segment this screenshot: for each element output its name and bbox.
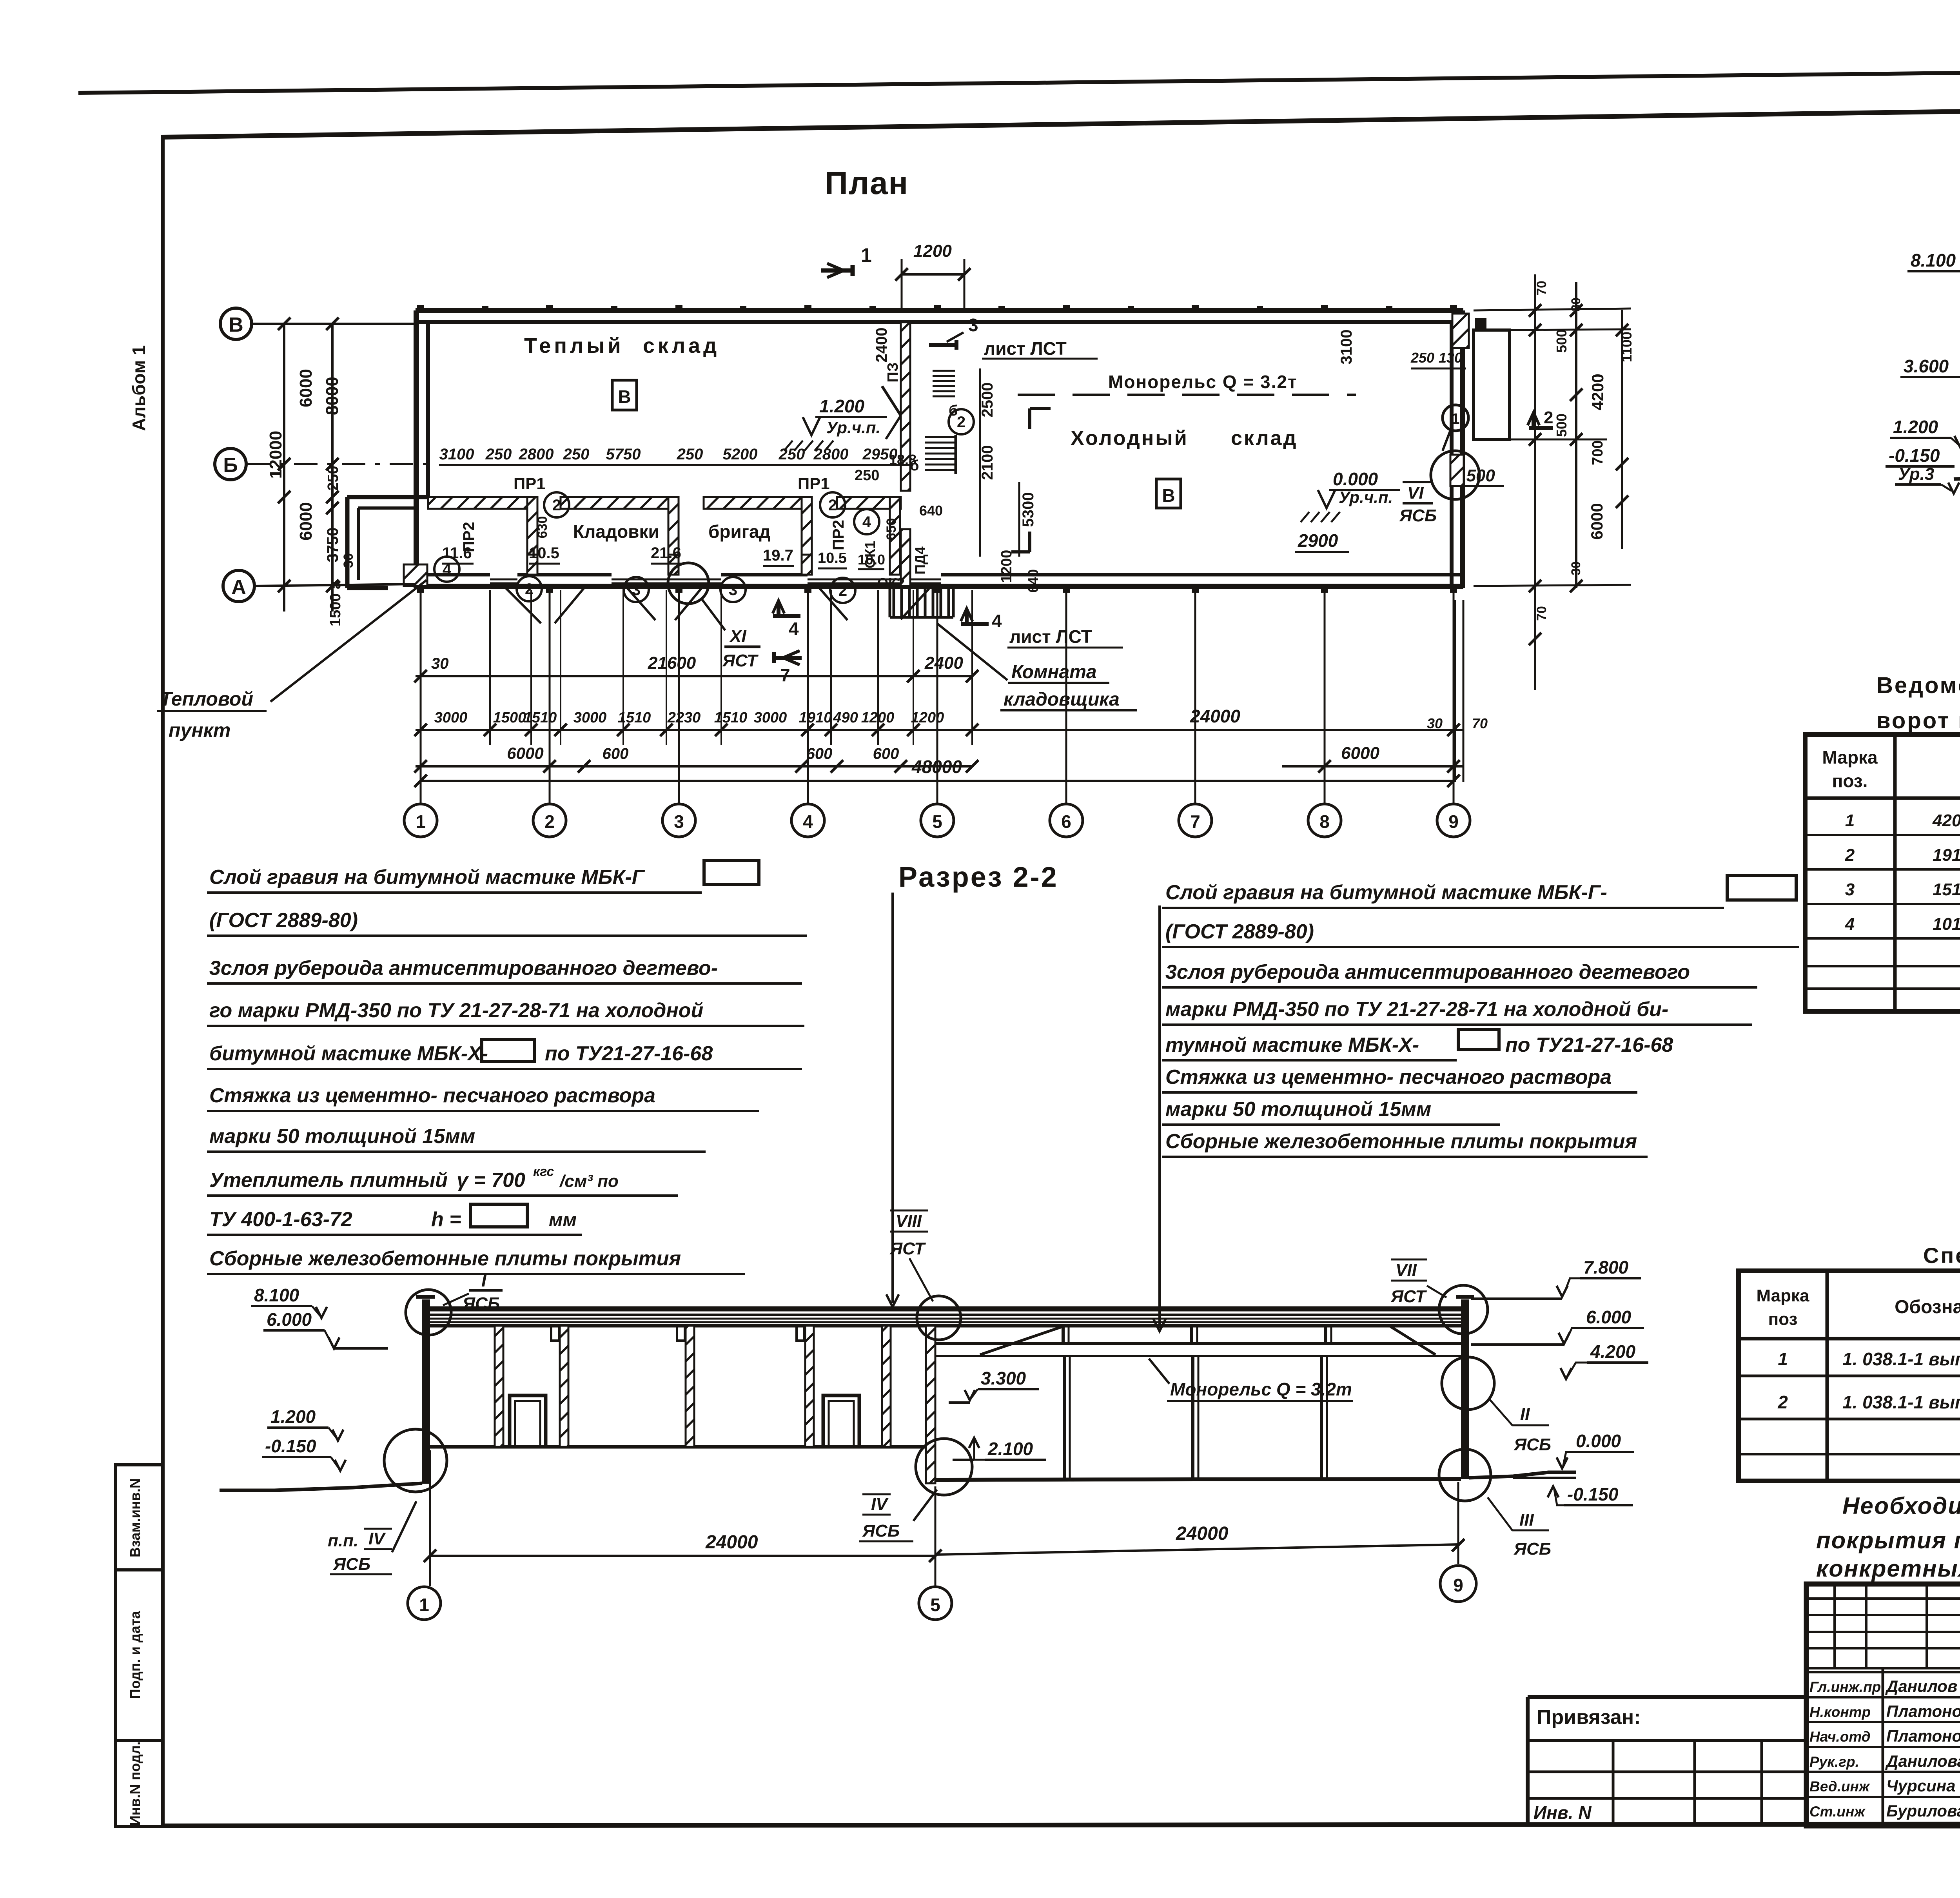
partition wall on axis B (hatched) — [428, 497, 527, 509]
svg-text:марки 50 толщиной 15мм: марки 50 толщиной 15мм — [209, 1125, 475, 1148]
section 2-2 mid wall (axis 5) — [926, 1326, 935, 1483]
svg-text:0.000: 0.000 — [1576, 1431, 1621, 1451]
svg-text:го марки РМД-350 по ТУ 21-27-: го марки РМД-350 по ТУ 21-27-28-71 на хо… — [209, 999, 703, 1022]
section 2-2 axis circles — [408, 1587, 441, 1620]
svg-text:ЯСБ: ЯСБ — [1399, 506, 1437, 525]
title block signature zone — [1806, 1597, 1960, 1600]
svg-text:поз.: поз. — [1832, 771, 1868, 791]
plan building top wall (axis B) — [416, 308, 1463, 313]
title block main frame — [1806, 1584, 1960, 1826]
svg-text:70: 70 — [1472, 715, 1488, 731]
svg-text:70: 70 — [1534, 281, 1549, 296]
svg-text:Необходимость устройства пар: Необходимость устройства пароизоляции по… — [1842, 1493, 1960, 1519]
grid circles 1-9 — [404, 804, 437, 837]
entrance steps bottom — [893, 588, 895, 617]
svg-text:Монорельс Q = 3.2т: Монорельс Q = 3.2т — [1170, 1379, 1352, 1399]
circled 1 with leader — [1443, 405, 1468, 431]
svg-text:3: 3 — [968, 315, 978, 335]
svg-text:тумной мастике МБК-Х-: тумной мастике МБК-Х- — [1165, 1034, 1419, 1056]
plan building right wall — [1460, 310, 1465, 588]
stair wall — [901, 322, 910, 491]
svg-text:1: 1 — [861, 244, 872, 266]
svg-text:1510 × 2370: 1510 × 2370 — [1933, 880, 1960, 899]
svg-text:1510: 1510 — [524, 709, 557, 726]
svg-text:640: 640 — [1025, 569, 1041, 593]
svg-text:250: 250 — [855, 467, 879, 484]
svg-text:24000: 24000 — [705, 1532, 758, 1553]
short posts above beam — [1062, 1325, 1065, 1344]
svg-text:1: 1 — [1845, 811, 1855, 830]
svg-text:6.000: 6.000 — [1586, 1307, 1632, 1327]
svg-text:24000: 24000 — [1190, 706, 1240, 726]
partition stubs bottom — [527, 555, 537, 575]
svg-text:24000: 24000 — [1176, 1523, 1229, 1544]
svg-text:Обозначение: Обозначение — [1895, 1297, 1960, 1317]
plan building bottom wall (axis A) — [416, 584, 972, 589]
left eave detail circle — [406, 1290, 451, 1335]
left block right bracket+arrow — [891, 893, 894, 1303]
svg-text:(ГОСТ 2889-80): (ГОСТ 2889-80) — [209, 909, 358, 932]
svg-text:Данилов: Данилов — [1885, 1677, 1957, 1695]
svg-text:8.100: 8.100 — [1911, 250, 1956, 270]
partitions — [495, 1326, 503, 1447]
svg-text:Ур.3: Ур.3 — [1898, 465, 1934, 484]
svg-text:Марка: Марка — [1822, 747, 1878, 768]
svg-text:1. 038.1-1 вып. 1: 1. 038.1-1 вып. 1 — [1842, 1349, 1960, 1369]
svg-text:2: 2 — [1544, 408, 1553, 427]
svg-text:5200: 5200 — [723, 446, 758, 463]
svg-text:битумной мастике МБК-Х-: битумной мастике МБК-Х- — [209, 1042, 488, 1065]
witness lines down from building — [420, 590, 422, 804]
monorail dashed line — [1018, 394, 1356, 396]
svg-text:3100: 3100 — [439, 446, 474, 463]
svg-text:3: 3 — [674, 811, 684, 832]
svg-text:5: 5 — [932, 811, 942, 832]
svg-text:3000: 3000 — [434, 709, 468, 726]
svg-text:500: 500 — [1553, 329, 1570, 353]
svg-text:/см³ по: /см³ по — [559, 1172, 619, 1191]
svg-text:1200: 1200 — [911, 709, 944, 726]
svg-text:Нач.отд: Нач.отд — [1809, 1729, 1871, 1745]
section mark 3 (top, list LST) — [929, 340, 956, 350]
svg-text:600: 600 — [873, 745, 899, 762]
frame left edge — [161, 136, 165, 1827]
revision grid — [1528, 1739, 1806, 1742]
svg-text:250: 250 — [1410, 350, 1434, 366]
svg-text:30: 30 — [341, 553, 356, 568]
svg-text:ПР1: ПР1 — [798, 474, 830, 493]
svg-text:ПР1: ПР1 — [514, 474, 546, 493]
axis circles B,Б,А — [220, 308, 252, 339]
left ground — [220, 1483, 422, 1490]
svg-text:250: 250 — [485, 446, 512, 463]
svg-text:9: 9 — [1448, 811, 1459, 832]
svg-text:8: 8 — [1319, 811, 1330, 832]
svg-text:ПР2: ПР2 — [830, 520, 847, 550]
svg-text:Разрез 2-2: Разрез 2-2 — [898, 862, 1058, 893]
svg-text:6.000: 6.000 — [267, 1309, 312, 1330]
cut mark 2 right — [1529, 416, 1553, 428]
svg-text:марки 50 толщиной 15мм: марки 50 толщиной 15мм — [1165, 1098, 1431, 1121]
svg-text:4: 4 — [789, 619, 799, 639]
svg-text:Платонова: Платонова — [1886, 1727, 1960, 1745]
svg-text:ЯСТ: ЯСТ — [1390, 1287, 1427, 1306]
svg-text:IV: IV — [871, 1495, 889, 1514]
svg-text:10.5: 10.5 — [818, 550, 847, 566]
svg-text:ЯСБ: ЯСБ — [862, 1521, 900, 1541]
svg-text:600: 600 — [806, 745, 833, 762]
IV/YaSB mark near axis 5 — [916, 1439, 972, 1495]
svg-text:2: 2 — [828, 497, 837, 514]
svg-text:250: 250 — [325, 466, 341, 490]
II/YaSB right — [1442, 1357, 1494, 1410]
right ground — [1469, 1472, 1576, 1478]
left base detail circle — [384, 1429, 447, 1492]
svg-text:4.200: 4.200 — [1590, 1341, 1636, 1362]
svg-text:4: 4 — [862, 514, 871, 531]
svg-text:8000: 8000 — [323, 377, 342, 415]
section 2-2 roof slab band — [422, 1306, 1469, 1312]
svg-text:11.6: 11.6 — [442, 544, 472, 562]
svg-text:2400: 2400 — [873, 328, 890, 363]
svg-text:I: I — [481, 1270, 487, 1290]
svg-text:5: 5 — [930, 1595, 940, 1615]
svg-text:-0.150: -0.150 — [1567, 1484, 1619, 1504]
svg-text:Марка: Марка — [1756, 1286, 1809, 1305]
sheet top band line 2 / frame top — [161, 102, 1960, 137]
svg-text:650: 650 — [884, 518, 899, 541]
right half monorail beam — [935, 1342, 1461, 1345]
svg-text:ЯСБ: ЯСБ — [1514, 1435, 1551, 1454]
svg-text:3000: 3000 — [573, 709, 607, 726]
svg-text:А: А — [231, 576, 246, 599]
svg-text:ЯСТ: ЯСТ — [889, 1239, 926, 1258]
svg-text:1.200: 1.200 — [1893, 417, 1938, 437]
svg-text:2400: 2400 — [924, 653, 963, 673]
svg-text:1: 1 — [1778, 1349, 1788, 1369]
svg-text:2800: 2800 — [519, 446, 554, 463]
svg-text:6000: 6000 — [296, 502, 316, 541]
svg-text:покрытия проверяется при пр: покрытия проверяется при привязке в зави… — [1816, 1527, 1960, 1553]
svg-text:1: 1 — [416, 811, 426, 832]
svg-text:пункт: пункт — [169, 719, 230, 741]
svg-text:3слоя рубероида антисептиров: 3слоя рубероида антисептированного дегте… — [1165, 961, 1690, 983]
svg-text:1: 1 — [1451, 411, 1459, 427]
table: vedomost proemov — [1805, 735, 1960, 1011]
svg-text:Н.контр: Н.контр — [1809, 1704, 1871, 1720]
svg-text:3слоя рубероида антисептирован: 3слоя рубероида антисептированного дегте… — [209, 957, 718, 980]
svg-text:10.5: 10.5 — [529, 544, 559, 562]
corner detail circle — [1431, 451, 1479, 499]
svg-text:4: 4 — [1845, 915, 1855, 934]
svg-text:-0.150: -0.150 — [265, 1436, 316, 1456]
svg-text:1510: 1510 — [714, 709, 748, 726]
svg-text:1100: 1100 — [1619, 332, 1635, 362]
svg-text:3.600: 3.600 — [1904, 356, 1949, 376]
right block left bracket+arrow — [1158, 905, 1161, 1328]
svg-text:4: 4 — [443, 561, 452, 578]
svg-text:Рук.гр.: Рук.гр. — [1809, 1754, 1859, 1770]
svg-text:поз: поз — [1768, 1310, 1798, 1329]
svg-text:лист ЛСТ: лист ЛСТ — [1009, 626, 1092, 647]
svg-text:-0.150: -0.150 — [1889, 445, 1940, 466]
axis B line across — [956, 323, 1463, 324]
svg-text:ОК1: ОК1 — [862, 541, 878, 568]
svg-text:ворот и дверей: ворот и дверей — [1877, 708, 1960, 733]
svg-text:Инв. N: Инв. N — [1534, 1802, 1592, 1823]
svg-text:1200: 1200 — [998, 550, 1015, 583]
svg-text:6000: 6000 — [296, 369, 316, 407]
svg-text:2900: 2900 — [1298, 530, 1338, 551]
svg-text:700: 700 — [1590, 440, 1606, 465]
spec table — [1739, 1271, 1960, 1481]
posts right half — [1063, 1356, 1066, 1479]
floor right half — [935, 1479, 1461, 1480]
svg-text:Чурсина: Чурсина — [1886, 1776, 1956, 1795]
svg-text:Ур.ч.п.: Ур.ч.п. — [1339, 488, 1393, 506]
svg-text:130: 130 — [1439, 350, 1462, 366]
svg-text:Слой гравия на битумной мастик: Слой гравия на битумной мастике МБК-Г — [209, 866, 645, 889]
svg-text:3: 3 — [1845, 880, 1855, 899]
svg-text:Кладовки: Кладовки — [573, 521, 659, 542]
svg-text:2100: 2100 — [979, 445, 996, 480]
svg-text:2: 2 — [1845, 846, 1855, 865]
svg-text:19.7: 19.7 — [763, 547, 793, 564]
privyazan box — [1528, 1695, 1806, 1699]
svg-text:4200 × 4200: 4200 × 4200 — [1932, 811, 1960, 830]
door swing arcs bottom wall — [506, 588, 541, 623]
svg-text:3750: 3750 — [324, 528, 341, 563]
svg-text:бригад: бригад — [708, 521, 771, 542]
svg-text:4200: 4200 — [1588, 374, 1607, 410]
svg-text:6000: 6000 — [1588, 503, 1606, 539]
svg-text:Привязан:: Привязан: — [1537, 1706, 1641, 1729]
interior dim row (3100 250 2800 ...) — [439, 464, 913, 466]
svg-text:Б: Б — [223, 454, 238, 477]
svg-text:1500 а: 1500 а — [327, 581, 344, 626]
svg-text:630: 630 — [535, 516, 550, 539]
svg-text:Стяжка из цементно- песчаног: Стяжка из цементно- песчаного раствора — [1165, 1066, 1612, 1089]
svg-text:h =: h = — [431, 1208, 461, 1231]
sheet top band line 1 — [78, 66, 1960, 93]
svg-text:2.100: 2.100 — [987, 1439, 1033, 1459]
svg-text:ТУ 400-1-63-72: ТУ 400-1-63-72 — [209, 1208, 352, 1231]
svg-text:Сборные железобетонные плиты: Сборные железобетонные плиты покрытия — [1165, 1130, 1637, 1153]
section 2-2 floor left half — [430, 1445, 935, 1449]
svg-text:Утеплитель плитный: Утеплитель плитный — [209, 1169, 448, 1192]
svg-text:В: В — [618, 386, 631, 407]
svg-text:5300: 5300 — [1020, 492, 1037, 527]
svg-text:21.6: 21.6 — [651, 544, 681, 562]
svg-text:30: 30 — [1569, 298, 1583, 312]
svg-text:18.8: 18.8 — [889, 452, 916, 468]
svg-text:1.200: 1.200 — [819, 396, 865, 416]
svg-text:конкретных климатических ус: конкретных климатических условий. — [1816, 1555, 1960, 1582]
svg-text:XI: XI — [729, 627, 746, 646]
svg-text:21600: 21600 — [648, 653, 696, 673]
svg-text:3: 3 — [729, 581, 737, 599]
svg-text:Ст.инж: Ст.инж — [1809, 1804, 1866, 1820]
svg-text:6: 6 — [1061, 811, 1071, 832]
svg-text:В: В — [229, 314, 243, 336]
svg-text:2: 2 — [838, 582, 847, 599]
svg-text:4: 4 — [992, 611, 1002, 631]
svg-text:Бурилова: Бурилова — [1886, 1802, 1960, 1820]
svg-text:VI: VI — [1407, 483, 1424, 503]
svg-text:Стяжка из цементно- песчаного: Стяжка из цементно- песчаного раствора — [209, 1084, 655, 1107]
svg-text:Тепловой: Тепловой — [160, 688, 253, 710]
plan building left wall — [414, 310, 419, 588]
right annex rectangle — [1474, 330, 1510, 439]
svg-text:Теплый: Теплый — [524, 334, 624, 357]
stair treads — [925, 436, 956, 438]
svg-text:640: 640 — [919, 503, 943, 519]
svg-text:кладовщика: кладовщика — [1004, 689, 1120, 710]
svg-text:2: 2 — [1777, 1392, 1788, 1412]
svg-text:II: II — [1520, 1404, 1530, 1424]
circled position numbers — [544, 492, 569, 517]
svg-text:ЯСБ: ЯСБ — [1514, 1539, 1551, 1559]
svg-text:6000: 6000 — [1341, 744, 1379, 763]
svg-text:Ведомость проемов: Ведомость проемов — [1877, 673, 1960, 698]
svg-text:Гл.инж.пр: Гл.инж.пр — [1809, 1679, 1881, 1695]
plan bottom dimension rows — [416, 675, 972, 677]
svg-text:1910 × 2370: 1910 × 2370 — [1933, 846, 1960, 865]
svg-text:Комната: Комната — [1011, 662, 1097, 682]
svg-text:п.п.: п.п. — [328, 1531, 358, 1550]
svg-text:кгс: кгс — [533, 1164, 554, 1179]
svg-text:Сборные железобетонные плиты: Сборные железобетонные плиты покрытия — [209, 1247, 681, 1270]
cut mark 1 top — [821, 265, 853, 276]
svg-text:VIII: VIII — [896, 1212, 922, 1231]
partition top clips — [551, 1326, 559, 1341]
svg-text:марки РМД-350 по ТУ 21-27-28-: марки РМД-350 по ТУ 21-27-28-71 на холод… — [1165, 998, 1668, 1021]
svg-text:8.100: 8.100 — [254, 1285, 299, 1305]
svg-text:по ТУ21-27-16-68: по ТУ21-27-16-68 — [1505, 1034, 1673, 1056]
cut mark bottom (4 up / 7 left) — [773, 604, 800, 616]
svg-text:Взам.инв.N: Взам.инв.N — [127, 1478, 143, 1557]
svg-text:250: 250 — [677, 446, 703, 463]
30/70 below bottom wall right — [1454, 600, 1456, 782]
svg-text:2: 2 — [525, 581, 534, 598]
svg-text:Ур.ч.п.: Ур.ч.п. — [826, 418, 880, 437]
svg-text:Вед.инж: Вед.инж — [1809, 1778, 1870, 1795]
svg-text:ЯСБ: ЯСБ — [462, 1294, 500, 1313]
svg-text:30: 30 — [1569, 561, 1583, 575]
svg-text:3100: 3100 — [1338, 330, 1355, 365]
svg-text:7: 7 — [1190, 811, 1200, 832]
svg-text:9: 9 — [1453, 1575, 1463, 1595]
svg-text:ПЗ: ПЗ — [885, 362, 901, 382]
door frames — [510, 1395, 546, 1447]
left attribute boxes — [116, 1465, 163, 1827]
stair treads upper flight — [933, 370, 955, 372]
left vertical dimension lines — [283, 324, 285, 611]
svg-text:Инв.N подл.: Инв.N подл. — [127, 1742, 143, 1826]
svg-text:IV: IV — [368, 1529, 386, 1548]
braces — [980, 1326, 1063, 1355]
section mark 4 (bottom, list LST) — [961, 611, 989, 624]
svg-text:1: 1 — [419, 1595, 429, 1615]
svg-text:250: 250 — [779, 446, 805, 463]
svg-text:Платонова: Платонова — [1886, 1702, 1960, 1720]
svg-text:VII: VII — [1396, 1261, 1417, 1280]
svg-text:500: 500 — [1553, 414, 1570, 437]
section 2-2 left wall — [422, 1299, 430, 1484]
svg-text:лист ЛСТ: лист ЛСТ — [984, 338, 1067, 359]
svg-text:План: План — [825, 165, 909, 201]
svg-text:250: 250 — [563, 446, 590, 463]
svg-text:70: 70 — [1534, 606, 1549, 621]
svg-text:ПД4: ПД4 — [912, 546, 928, 575]
column ticks on walls — [417, 305, 424, 311]
svg-text:ЯСБ: ЯСБ — [333, 1555, 370, 1574]
svg-text:2800: 2800 — [813, 446, 849, 463]
III/YaSB right — [1439, 1449, 1491, 1501]
svg-text:2: 2 — [957, 414, 965, 431]
section 2-2 span dims — [430, 1555, 935, 1557]
svg-text:Спецификация: Спецификация — [1923, 1243, 1960, 1268]
axis leader lines left — [252, 323, 416, 325]
svg-text:4: 4 — [803, 811, 813, 832]
frame bottom edge — [161, 1824, 1960, 1826]
svg-text:Монорельс Q = 3.2т: Монорельс Q = 3.2т — [1108, 372, 1298, 392]
vertical partitions — [527, 497, 537, 575]
svg-text:6000: 6000 — [507, 744, 543, 762]
section 2-2 right wall — [1461, 1299, 1469, 1479]
svg-text:3000: 3000 — [754, 709, 787, 726]
svg-text:1. 038.1-1 вып. 1: 1. 038.1-1 вып. 1 — [1842, 1392, 1960, 1412]
svg-text:Слой гравия на битумной мас: Слой гравия на битумной мастике МБК-Г- — [1165, 881, 1607, 904]
svg-text:по ТУ21-27-16-68: по ТУ21-27-16-68 — [545, 1042, 713, 1065]
svg-text:Альбом 1: Альбом 1 — [129, 345, 149, 431]
svg-text:2: 2 — [552, 497, 561, 514]
svg-text:мм: мм — [549, 1210, 577, 1230]
svg-text:γ = 700: γ = 700 — [457, 1169, 525, 1192]
svg-text:(ГОСТ 2889-80): (ГОСТ 2889-80) — [1165, 920, 1314, 943]
svg-text:1010 × 2370: 1010 × 2370 — [1933, 915, 1960, 934]
svg-text:3: 3 — [632, 581, 641, 599]
svg-text:В: В — [1162, 485, 1175, 506]
right side vertical dims — [1534, 274, 1536, 690]
svg-text:3.300: 3.300 — [981, 1368, 1026, 1388]
svg-text:12000: 12000 — [266, 431, 285, 479]
svg-text:склад: склад — [643, 334, 720, 357]
svg-text:30: 30 — [431, 655, 449, 672]
svg-text:1.200: 1.200 — [270, 1406, 316, 1427]
svg-text:2500: 2500 — [979, 383, 996, 417]
heat point annex (left protrusion) — [345, 497, 350, 588]
svg-text:ЯСТ: ЯСТ — [722, 651, 759, 670]
svg-text:1200: 1200 — [913, 241, 952, 261]
svg-text:ОК2: ОК2 — [877, 575, 905, 591]
svg-text:Холодный: Холодный — [1071, 427, 1189, 450]
svg-text:5750: 5750 — [606, 446, 641, 463]
svg-text:1910: 1910 — [799, 709, 832, 726]
svg-text:Подп. и дата: Подп. и дата — [127, 1611, 143, 1699]
svg-text:Данилова: Данилова — [1885, 1752, 1960, 1770]
svg-text:600: 600 — [603, 745, 629, 762]
svg-text:1500: 1500 — [493, 709, 526, 726]
svg-text:7.800: 7.800 — [1583, 1257, 1629, 1277]
svg-text:склад: склад — [1231, 427, 1298, 450]
door diagonal at stair top — [882, 386, 901, 416]
horizontal extension lines right — [1474, 308, 1631, 310]
XI detail circle — [668, 563, 709, 604]
svg-text:III: III — [1519, 1510, 1534, 1530]
svg-text:0.000: 0.000 — [1333, 469, 1378, 489]
svg-text:2: 2 — [544, 811, 555, 832]
